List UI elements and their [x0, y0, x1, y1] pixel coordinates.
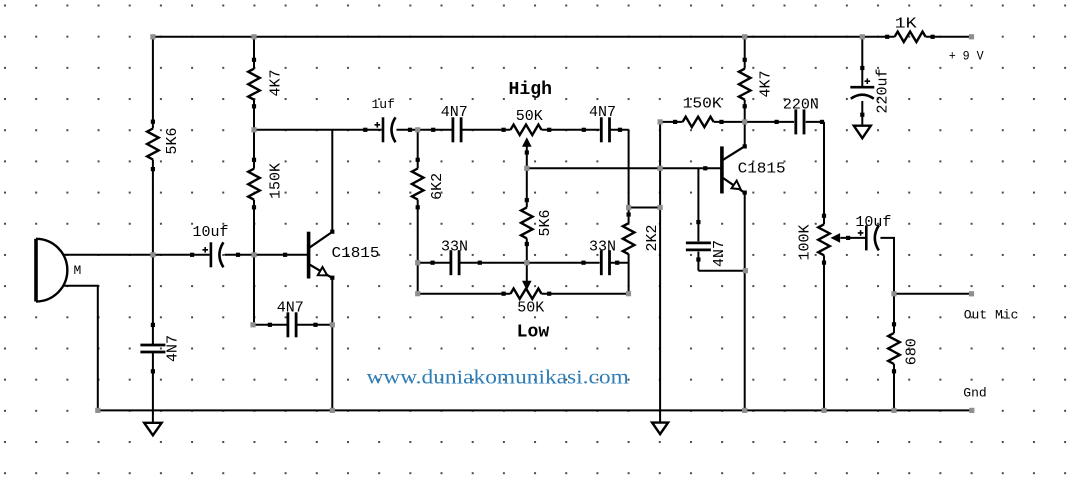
- wire +9V top rail left segment: [153, 36, 895, 38]
- wire mic top lead: [63, 254, 209, 256]
- wire 50K High to 4N7 right: [542, 129, 600, 131]
- wire wiper column to 5K6: [526, 168, 528, 207]
- svg-text:1K: 1K: [895, 16, 917, 33]
- wire 4N7 right to corner: [610, 129, 629, 131]
- capacitor C 33N left: [449, 250, 452, 275]
- ground symbol middle: [652, 423, 668, 435]
- wire 4N7 Q2 bottom: [697, 252, 699, 271]
- wire left vertical x=153 mid: [152, 160, 154, 345]
- wire 220uf to ground symbol: [861, 101, 863, 126]
- capacitor C 4N7 (high-pass right): [600, 117, 603, 142]
- wire Out Mic stub: [894, 293, 972, 295]
- wire wiper column down + arrow Low pot: [526, 263, 528, 282]
- wire ground rail: [98, 409, 972, 411]
- capacitor C 33N right: [600, 250, 603, 275]
- wire 680 to ground rail: [893, 364, 895, 410]
- svg-text:10uf: 10uf: [855, 214, 891, 231]
- wire 220N right lead: [806, 121, 824, 123]
- capacitor C 10uf input electrolytic: [210, 242, 213, 267]
- svg-text:Out Mic: Out Mic: [964, 308, 1019, 323]
- wire 150K row left lead: [660, 121, 683, 123]
- transistor Q2 C1815: [720, 146, 724, 193]
- svg-text:www.duniakomunikasi.com: www.duniakomunikasi.com: [367, 367, 630, 389]
- capacitor C 10uf output electrolytic: [865, 225, 868, 250]
- svg-text:150K: 150K: [268, 163, 285, 199]
- wire Q1 feedback row 4N7 left: [253, 324, 287, 326]
- resistor R 150K (Q2 bias): [683, 117, 714, 127]
- resistor R 4K7 (Q1 load): [248, 69, 260, 100]
- wire 33N left to center: [460, 262, 527, 264]
- wire Q2 collector node to 220N: [745, 121, 794, 123]
- svg-text:680: 680: [904, 338, 921, 365]
- wire divider vertical x=254 top: [253, 37, 255, 69]
- ground symbol 220uf: [854, 126, 871, 139]
- wire 4K7 to collector node: [744, 100, 746, 122]
- wire 6K2 down to 33N row: [417, 200, 419, 294]
- wire x=254 between 4K7 and 150K: [253, 100, 255, 169]
- junction nodes (gray): [150, 34, 155, 39]
- svg-text:5K6: 5K6: [537, 209, 554, 236]
- svg-text:5K6: 5K6: [164, 127, 181, 154]
- capacitor C 4N7 (Q2): [697, 168, 699, 241]
- resistor R 6K2: [412, 169, 424, 200]
- ground symbol left: [144, 423, 162, 436]
- resistor R 5K6 center: [521, 207, 533, 238]
- svg-text:4N7: 4N7: [165, 335, 182, 362]
- svg-text:220N: 220N: [783, 97, 819, 114]
- svg-text:50K: 50K: [517, 300, 544, 317]
- svg-text:M: M: [74, 263, 82, 278]
- wire ground column x=660: [659, 122, 661, 423]
- wiper arrow 100K: [831, 233, 841, 243]
- wire mic bottom lead: [63, 286, 98, 411]
- wire tone left column x=417.7: [417, 130, 419, 169]
- wire Q1 feedback row right: [297, 324, 333, 326]
- wire tone right column x=628.6: [628, 130, 630, 223]
- capacitor C 4N7 vertical: [140, 344, 165, 347]
- svg-text:50K: 50K: [516, 108, 543, 125]
- svg-text:4N7: 4N7: [277, 300, 304, 317]
- svg-text:Low: Low: [517, 322, 550, 342]
- capacitor C 4N7 (Q1 feedback): [286, 312, 289, 337]
- svg-text:2K2: 2K2: [644, 224, 661, 251]
- wire 220N node down to 100K: [823, 122, 825, 224]
- potentiometer 50K Low: [418, 293, 511, 295]
- resistor R 4K7 (Q2 load): [739, 69, 751, 100]
- svg-text:33N: 33N: [441, 239, 468, 256]
- svg-text:4K7: 4K7: [268, 69, 285, 96]
- wire 100K bottom to ground rail: [823, 255, 825, 410]
- wiper arrow High pot: [522, 137, 532, 147]
- svg-text:4K7: 4K7: [758, 70, 775, 97]
- wire +9V top rail right segment: [926, 36, 972, 38]
- microphone M: [34, 239, 38, 302]
- svg-text:4N7: 4N7: [711, 240, 728, 267]
- wire Q2 collector column top rail to 4K7: [744, 37, 746, 69]
- svg-text:C1815: C1815: [332, 245, 380, 262]
- svg-text:Gnd: Gnd: [963, 386, 986, 401]
- resistor R 150K (Q1 bias): [248, 169, 260, 200]
- wire 10uf out to corner: [880, 238, 894, 294]
- wire Q1 collector up: [331, 130, 333, 232]
- svg-text:1uf: 1uf: [372, 97, 395, 112]
- wire 4N7 to 50K High: [462, 129, 511, 131]
- potentiometer 50K High: [511, 125, 542, 135]
- potentiometer 100K: [818, 224, 830, 255]
- resistor R 2K2: [623, 223, 635, 254]
- wire Q2 emitter down: [744, 193, 746, 411]
- wire row A: collector to 1uf: [254, 129, 382, 131]
- svg-text:C1815: C1815: [738, 161, 786, 178]
- wire 33N right lead: [610, 262, 629, 264]
- wire 2K2 bottom to Low row: [628, 254, 630, 294]
- wire x=254 down to base row: [253, 200, 255, 325]
- resistor R 5K6: [147, 129, 159, 160]
- svg-text:10uf: 10uf: [193, 224, 229, 241]
- wire left vertical x=153 bottom: [152, 353, 154, 423]
- wire 1uf to node: [397, 129, 452, 131]
- wire 33N row center to right cap: [527, 262, 600, 264]
- wire Q2 collector: [744, 122, 746, 146]
- resistor 1K: [895, 32, 926, 42]
- svg-text:33N: 33N: [589, 239, 616, 256]
- wire left vertical x=153 top: [152, 37, 154, 129]
- svg-text:100K: 100K: [797, 224, 814, 260]
- svg-text:+ 9 V: + 9 V: [949, 49, 984, 64]
- resistor R 680: [888, 333, 900, 364]
- svg-text:150K: 150K: [683, 96, 722, 113]
- transistor Q1 C1815: [307, 232, 311, 279]
- capacitor C 220N: [794, 109, 797, 134]
- svg-text:High: High: [509, 80, 553, 100]
- wire 33N row left: [418, 262, 450, 264]
- svg-text:220uf: 220uf: [875, 68, 892, 113]
- wire 5K6 to 33N row: [526, 238, 528, 262]
- svg-text:4N7: 4N7: [441, 104, 468, 121]
- capacitor C 1uf electrolytic: [382, 117, 385, 142]
- wire Q1 emitter down: [331, 278, 333, 411]
- svg-text:6K2: 6K2: [429, 173, 446, 200]
- capacitor C 220uf electrolytic: [861, 37, 863, 86]
- wire Q2 base row: [527, 167, 722, 169]
- wire stub 2K2 top to ground column: [629, 207, 661, 209]
- svg-text:4N7: 4N7: [589, 104, 616, 121]
- capacitor C 4N7 (high-pass left): [451, 117, 454, 142]
- wire 10uf to Q1 base: [225, 254, 309, 256]
- wire 150K to Q2 collector node: [714, 121, 745, 123]
- wire 4N7 to emitter: [698, 270, 745, 272]
- wire 894 column to 680: [893, 294, 895, 333]
